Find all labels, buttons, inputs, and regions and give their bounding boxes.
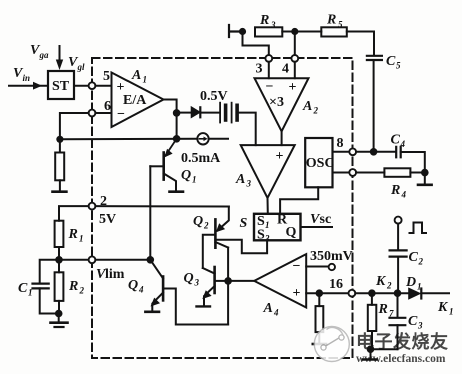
svg-text:4: 4 [138, 285, 144, 295]
capacitor C3 [390, 293, 406, 349]
svg-text:ga: ga [39, 50, 50, 60]
svg-text:电子发烧友: 电子发烧友 [356, 331, 449, 352]
junction dot C2/C3 [394, 289, 402, 297]
svg-text:1: 1 [449, 307, 454, 317]
ground Q3 [197, 305, 211, 307]
label D1 [405, 275, 422, 292]
resistor R5 [295, 27, 374, 36]
junction dot C5 node [370, 148, 378, 156]
junction dot top rail mid [291, 28, 298, 35]
resistor left (divider) [55, 153, 64, 191]
watermark logo circle [314, 327, 349, 362]
Vga arrow into ST [59, 46, 61, 63]
junction dot top rail left [239, 28, 246, 35]
svg-text:4: 4 [282, 62, 289, 77]
label 0.5V [200, 89, 228, 104]
resistor R7 below K2 [368, 293, 377, 349]
svg-text:4: 4 [273, 308, 279, 318]
svg-text:5V: 5V [99, 212, 116, 227]
junction dot left node [56, 136, 63, 143]
pin 2 label [100, 194, 107, 209]
svg-text:www.elecfans.com: www.elecfans.com [356, 353, 446, 365]
wire jog from top rail to pin 3 [243, 32, 269, 55]
diode (0.5V offset) [191, 107, 200, 118]
node supply stub top-left [229, 25, 242, 37]
label C3 [408, 314, 423, 331]
svg-text:in: in [23, 73, 31, 83]
A2 plus [289, 80, 297, 95]
resistor below pin16 node [316, 293, 324, 342]
wire Q2 collector down through A4 node [227, 248, 229, 325]
svg-text:D: D [405, 275, 416, 290]
pin 3 label [256, 62, 263, 77]
capacitor C5 [367, 56, 382, 60]
pin 5 circle [89, 82, 96, 89]
svg-text:R: R [378, 302, 388, 317]
capacitor C1 [33, 260, 60, 314]
wire Vin into ST with arrow [9, 85, 48, 87]
pin 4 label [282, 62, 289, 77]
label A3 [235, 172, 252, 189]
latch S1 text [257, 214, 270, 230]
svg-text:E/A: E/A [123, 93, 147, 108]
label Vlim [96, 267, 125, 282]
SR latch box [254, 214, 301, 241]
svg-text:A: A [131, 68, 141, 83]
label A4 [263, 301, 280, 318]
feedback rail wire [60, 138, 197, 141]
label Q2 [193, 214, 209, 231]
junction dot feedback rail [173, 135, 181, 143]
wire pin16 to K2 rail [355, 292, 409, 294]
svg-text:3: 3 [264, 234, 270, 244]
A3 plus [276, 149, 284, 164]
svg-text:4: 4 [401, 190, 407, 200]
label R3 [259, 13, 276, 30]
svg-text:R: R [326, 13, 336, 28]
pin 3 circle [265, 55, 272, 62]
wire C4 to corner [401, 152, 425, 170]
wire to diode [180, 112, 191, 114]
svg-text:5: 5 [396, 61, 401, 71]
svg-text:4: 4 [400, 139, 406, 149]
A1 E/A text [123, 93, 147, 108]
wire OSC lower to pin [333, 172, 350, 174]
wire pin6 feedback left [60, 113, 89, 153]
svg-text:−: − [266, 80, 274, 95]
wire Q1 base down to Vlim node [149, 166, 151, 259]
pin 8 label [337, 136, 344, 151]
wire top-right corner down to C5 [373, 32, 375, 56]
wire terminal to C2 [397, 224, 399, 250]
IC dashed boundary box [92, 58, 353, 358]
pin 2 circle [89, 203, 96, 210]
resistor R3 [255, 27, 295, 36]
svg-text:R: R [390, 183, 400, 198]
svg-text:2: 2 [313, 106, 319, 116]
svg-text:lim: lim [105, 267, 125, 282]
capacitor C4 [396, 147, 401, 158]
svg-text:C: C [18, 281, 28, 296]
svg-text:3: 3 [417, 321, 423, 331]
label Q4 [128, 278, 144, 295]
wire diode to battery [200, 112, 220, 114]
junction dot R1/R2 [55, 256, 63, 264]
pin circle lower [349, 169, 356, 176]
label R7 [378, 302, 395, 319]
pin Vlim circle [89, 256, 96, 263]
transistor Q3 [202, 267, 228, 305]
svg-text:S: S [240, 216, 248, 231]
label Vin [13, 66, 30, 83]
wire pin2 left to R1 [59, 206, 89, 221]
latch Q text [286, 225, 297, 240]
ground below resistor [313, 343, 326, 346]
svg-text:C: C [408, 314, 418, 329]
current source 0.5mA circle [197, 133, 208, 144]
svg-text:1: 1 [417, 282, 422, 292]
label C5 [386, 54, 401, 71]
label K2 [375, 274, 392, 291]
ground Q1 [170, 190, 184, 193]
svg-text:Q: Q [184, 271, 194, 286]
pin 16 circle [349, 290, 356, 297]
svg-text:0.5mA: 0.5mA [181, 151, 221, 166]
svg-text:1: 1 [28, 288, 33, 298]
svg-text:gl: gl [77, 62, 86, 72]
label 350mV [310, 249, 353, 264]
junction dot bottom [367, 345, 375, 353]
svg-text:3: 3 [256, 62, 263, 77]
wire OSC upper to pin8 [333, 151, 350, 153]
pin 4 circle [291, 55, 298, 62]
svg-text:2: 2 [203, 221, 209, 231]
transistor Q2 [203, 207, 229, 269]
svg-text:3: 3 [194, 278, 200, 288]
label Q3 [184, 271, 200, 288]
wire S input Z route [215, 240, 267, 254]
label C2 [409, 250, 424, 267]
svg-text:+: + [293, 286, 301, 301]
svg-text:×3: ×3 [269, 95, 284, 110]
wire diode to K1 [421, 292, 449, 294]
wire A4 plus input [306, 292, 348, 294]
label 0.5mA [181, 151, 221, 166]
junction dot A1 out [173, 109, 181, 117]
latch R text [277, 213, 288, 228]
svg-text:R: R [68, 227, 78, 242]
svg-text:−: − [117, 107, 125, 122]
wire latch Q output Vsc [301, 226, 333, 228]
watermark chinese text [356, 331, 449, 352]
svg-text:5: 5 [338, 20, 343, 30]
A1 minus [117, 107, 125, 122]
junction dot pin16 node [316, 289, 324, 297]
watermark url text [356, 353, 446, 365]
A4 plus [293, 286, 301, 301]
label K1 [437, 300, 454, 317]
svg-text:2: 2 [386, 281, 392, 291]
block ST [48, 71, 74, 99]
ground Q4 [145, 310, 159, 313]
wire bottom joining R7 and C3 [372, 348, 398, 350]
svg-text:A: A [302, 99, 312, 114]
svg-text:C: C [409, 250, 419, 265]
label C1 [18, 281, 33, 298]
pin 6 circle [89, 110, 96, 117]
wire pin8 to C4 [356, 151, 395, 153]
wire pin3 to A2 [268, 62, 270, 78]
svg-text:Q: Q [181, 168, 191, 183]
svg-text:2: 2 [418, 257, 424, 267]
wire A4 minus input to 350mV [306, 266, 328, 268]
svg-text:+: + [289, 80, 297, 95]
svg-text:6: 6 [104, 99, 111, 114]
wire OSC to latch R input [280, 187, 318, 214]
junction dot Vlim/Q4 [147, 256, 155, 264]
svg-text:R: R [259, 13, 269, 28]
pulse terminal circle [395, 217, 402, 224]
transistor Q4 [150, 260, 228, 325]
svg-text:K: K [375, 274, 387, 289]
svg-text:1: 1 [192, 175, 197, 185]
svg-text:+: + [276, 149, 284, 164]
svg-text:350mV: 350mV [310, 249, 353, 264]
block OSC [305, 138, 332, 187]
svg-text:1: 1 [79, 234, 84, 244]
wire A3 out to latch [267, 198, 269, 214]
wire current source right [209, 138, 228, 140]
pin circle 350mV [329, 264, 335, 270]
svg-text:sc: sc [320, 212, 332, 227]
pin 8 circle [349, 148, 356, 155]
label R4 [390, 183, 407, 200]
A2 minus [266, 80, 274, 95]
latch S3 text [257, 228, 270, 244]
ground R2 [51, 314, 68, 328]
svg-text:ST: ST [52, 79, 70, 94]
junction dot A4 out node [224, 277, 232, 285]
svg-text:16: 16 [329, 277, 343, 292]
vertical wire A1out to rail [176, 113, 178, 139]
resistor R4 [384, 168, 421, 177]
junction dot K2 [368, 289, 376, 297]
wire ST to pin5 [74, 85, 89, 87]
wire battery to A3 input [239, 113, 256, 146]
pin 16 label [329, 277, 343, 292]
svg-text:A: A [235, 172, 245, 187]
ground bottom right [363, 349, 377, 359]
wire node to Vlim pin [59, 259, 89, 261]
wire pin 4 [294, 32, 296, 55]
pin 5 label [103, 69, 110, 84]
label 5V [99, 212, 116, 227]
resistor R1 [55, 221, 64, 260]
resistor R2 [55, 260, 64, 314]
wire A1 output [164, 100, 177, 113]
svg-text:K: K [437, 300, 449, 315]
svg-text:OSC: OSC [306, 156, 335, 171]
wire pin to R4 [356, 172, 384, 174]
wire A2 out to A3 [281, 131, 283, 145]
battery 0.5V [220, 103, 237, 123]
svg-text:C: C [391, 133, 401, 148]
ground left resistor [53, 190, 67, 193]
svg-text:Q: Q [193, 214, 203, 229]
wire Vlim pin to Q4 node [95, 259, 150, 261]
label Vga [30, 43, 49, 60]
wire pin4 to A2 [294, 62, 296, 78]
label A2 [302, 99, 319, 116]
label R5 [326, 13, 343, 30]
svg-text:Q: Q [286, 225, 297, 240]
label A1 [131, 68, 147, 85]
junction dot R2 bottom [55, 310, 63, 318]
label R2 [68, 279, 85, 296]
wire A4 out to node [228, 280, 254, 282]
svg-text:3: 3 [270, 20, 276, 30]
op-amp A4 [254, 254, 306, 307]
label Vgl [68, 55, 85, 72]
op-amp A3 [241, 145, 295, 198]
wire pin5 to A1 [95, 85, 111, 87]
svg-text:S: S [257, 228, 265, 243]
wire C5 down to node at pin8 rail [373, 60, 375, 152]
svg-text:8: 8 [337, 136, 344, 151]
op-amp A2 [255, 78, 309, 131]
pin 6 label [104, 99, 111, 114]
op-amp A1 [112, 73, 164, 128]
wire C2 to rail [397, 257, 399, 294]
label S outside latch [240, 216, 248, 231]
A4 minus [293, 259, 301, 274]
svg-text:3: 3 [246, 179, 252, 189]
svg-text:Q: Q [128, 278, 138, 293]
transistor Q1 [150, 139, 176, 191]
label C4 [391, 133, 406, 150]
svg-text:C: C [386, 54, 396, 69]
svg-text:1: 1 [143, 75, 148, 85]
wire pin2 rail right to Q2 emitter [95, 205, 228, 207]
junction dot C4/R4 [421, 169, 429, 177]
svg-text:5: 5 [103, 69, 110, 84]
pulse waveform symbol [410, 223, 427, 234]
ground C4/R4 [418, 173, 432, 185]
svg-text:1: 1 [265, 220, 270, 230]
label Q1 [181, 168, 197, 185]
diode D1 [409, 288, 422, 299]
capacitor C2 [390, 250, 407, 256]
svg-text:A: A [263, 301, 273, 316]
label Vsc [310, 212, 331, 227]
wire pin6 to A1 [95, 112, 111, 114]
A1 plus [117, 80, 125, 95]
label R1 [68, 227, 84, 244]
svg-text:2: 2 [79, 286, 85, 296]
svg-text:R: R [68, 279, 78, 294]
svg-text:−: − [293, 259, 301, 274]
A2 gain x3 [269, 95, 284, 110]
svg-text:0.5V: 0.5V [200, 89, 228, 104]
